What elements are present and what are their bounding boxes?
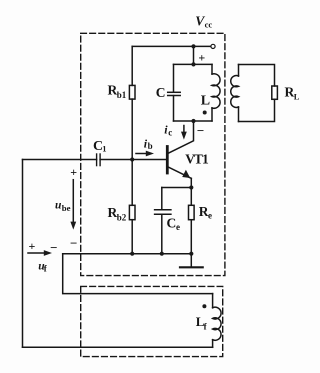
inductor Lf	[212, 294, 214, 308]
Vcc terminal circle	[211, 44, 215, 48]
svg-text:−: −	[70, 236, 77, 251]
node top junction	[191, 44, 195, 48]
svg-text:1: 1	[102, 143, 106, 153]
node tank bottom	[191, 119, 195, 123]
node tank top	[191, 62, 195, 66]
wire bottom rail	[63, 253, 192, 255]
transformer secondary loop	[239, 65, 275, 87]
node L polarity dot	[203, 111, 207, 115]
capacitor C1	[23, 159, 97, 161]
node rail-Rb2	[130, 252, 134, 256]
svg-text:c: c	[168, 128, 172, 138]
svg-text:L: L	[294, 91, 300, 101]
current arrow ic	[183, 126, 185, 135]
resistor Rb1	[131, 46, 133, 85]
svg-text:b: b	[148, 141, 153, 151]
ground	[190, 254, 192, 267]
wire top rail	[132, 45, 211, 47]
wire left outer	[22, 160, 24, 348]
svg-text:+: +	[70, 165, 77, 179]
capacitor Ce	[162, 187, 192, 189]
main dashed box	[81, 33, 225, 275]
svg-text:f: f	[44, 264, 48, 274]
LC tank: top/bottom edges	[174, 63, 213, 65]
voltage arrow ube	[72, 180, 74, 224]
resistor RL	[272, 86, 278, 99]
svg-text:b2: b2	[117, 212, 127, 222]
node rail-emitter	[189, 252, 193, 256]
svg-text:C: C	[167, 215, 177, 230]
resistor Re	[189, 205, 195, 219]
svg-text:−: −	[197, 123, 204, 138]
wire collector	[168, 121, 194, 153]
svg-text:+: +	[198, 51, 205, 65]
inductor secondary	[238, 65, 240, 77]
wire base	[132, 159, 166, 161]
svg-text:−: −	[50, 240, 57, 255]
inductor L	[211, 64, 213, 74]
node Lf polarity dot	[202, 304, 206, 308]
wire feedback bottom	[23, 346, 213, 348]
svg-text:f: f	[204, 322, 208, 332]
node base junction	[130, 157, 134, 161]
svg-text:cc: cc	[205, 19, 213, 29]
voltage arrow uf	[28, 252, 46, 254]
svg-text:be: be	[62, 203, 71, 213]
svg-text:b1: b1	[117, 90, 127, 100]
wire top rail to tank	[193, 46, 195, 64]
capacitor C	[173, 64, 175, 92]
svg-text:VT1: VT1	[185, 152, 209, 167]
feedback dashed box Lf	[81, 286, 223, 356]
node emitter junction	[189, 185, 193, 189]
transistor VT1	[166, 147, 169, 174]
svg-text:e: e	[176, 222, 180, 232]
wire feedback top	[63, 254, 213, 294]
svg-text:L: L	[201, 93, 210, 108]
current arrow ib	[136, 153, 148, 155]
node rail-Ce	[160, 252, 164, 256]
svg-text:e: e	[208, 211, 212, 221]
svg-text:C: C	[156, 85, 166, 100]
resistor Rb2	[131, 160, 133, 206]
svg-text:+: +	[29, 239, 36, 253]
